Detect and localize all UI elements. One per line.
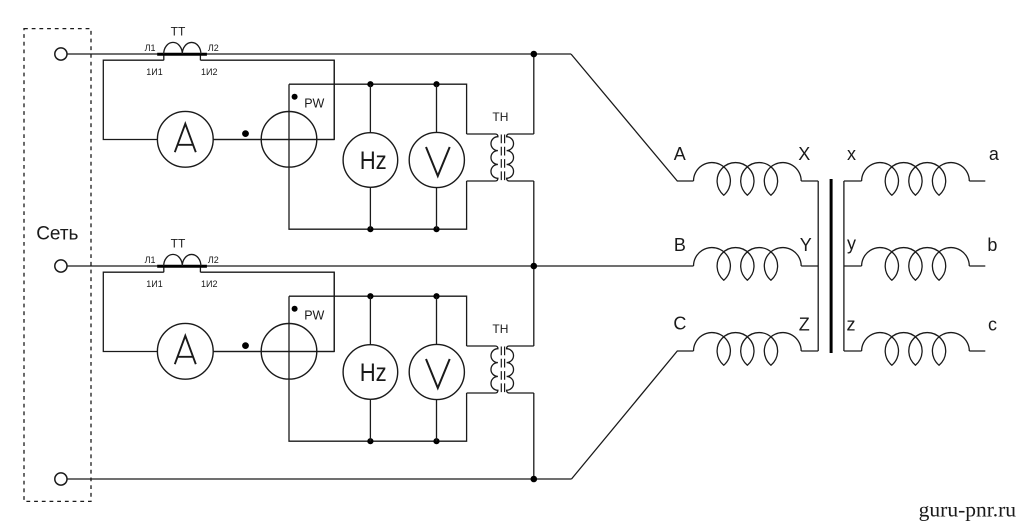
wire CT secondary stubs (top) (164, 56, 201, 61)
svg-text:ТН: ТН (492, 110, 508, 124)
svg-text:Y: Y (800, 235, 812, 255)
junction dot V branch top (top) (433, 81, 439, 87)
junction dot Hz branch bottom (top) (367, 226, 373, 232)
svg-text:y: y (847, 234, 856, 254)
voltmeter PV (bottom) (409, 344, 464, 399)
wire through wattmeter (top) (261, 139, 334, 141)
wire Hz branch (top) (369, 84, 371, 229)
transformer primary winding B-Y (694, 248, 802, 281)
wire V branch (top) (436, 84, 438, 229)
terminal 1 (55, 48, 67, 60)
wattmeter PW circle (top) (261, 112, 317, 168)
voltage transformer TN secondary winding (bottom) (507, 346, 534, 393)
svg-text:Л2: Л2 (208, 43, 219, 53)
wire diagonal A to winding (571, 54, 694, 181)
junction dot V branch bottom (top) (433, 226, 439, 232)
ammeter PA (top) (157, 111, 213, 167)
wire ammeter to wattmeter (top) (213, 139, 261, 141)
measurement box (top) (289, 84, 467, 229)
junction dot phase A / TN (531, 51, 538, 58)
wire secondary bus to winding z (844, 350, 862, 352)
network (Сеть) dashed box (24, 29, 91, 502)
wire secondary terminal c (969, 350, 985, 352)
svg-text:Hz: Hz (360, 147, 387, 175)
transformer primary winding A-X (694, 163, 802, 196)
wire CT secondary loop (bottom) (103, 272, 334, 351)
wire winding Z to star bus (801, 350, 818, 352)
wire secondary bus to winding x (844, 180, 862, 182)
junction dot Hz branch top (top) (367, 81, 373, 87)
current transformer TT (top) primary bar (157, 53, 207, 56)
svg-text:a: a (989, 144, 1000, 164)
wire secondary bus to winding y (844, 265, 862, 267)
junction dot Hz branch bottom (bottom) (367, 438, 373, 444)
wire TN vertical bus segments (533, 54, 535, 479)
svg-text:A: A (674, 144, 686, 164)
wire secondary bus x-y-z (843, 181, 845, 351)
wire wattmeter box right edge (top) (333, 60, 335, 139)
transformer secondary winding z-c (862, 333, 970, 366)
svg-text:c: c (988, 315, 997, 335)
wire secondary terminal a (969, 180, 985, 182)
svg-text:Л1: Л1 (145, 43, 156, 53)
wattmeter voltage polarity dot (top) (292, 94, 298, 100)
wire phase C horizontal (67, 478, 572, 480)
junction dot phase B / TN (531, 263, 538, 270)
wire primary star bus X-Y-Z (817, 181, 819, 351)
wattmeter current polarity dot (bottom) (242, 342, 249, 349)
voltage transformer TN primary winding (top) (467, 134, 498, 181)
voltage transformer TN core (bottom) (501, 347, 504, 393)
wire CT secondary loop (top) (103, 60, 334, 139)
svg-text:z: z (847, 315, 856, 335)
ammeter PA (bottom) (157, 323, 213, 379)
svg-text:x: x (847, 144, 856, 164)
transformer secondary winding x-a (862, 163, 970, 196)
transformer core bar (830, 179, 833, 353)
wire winding X to star bus (801, 180, 818, 182)
frequency meter Hz (top) (343, 133, 398, 188)
wire secondary terminal b (969, 265, 985, 267)
junction dot Hz branch top (bottom) (367, 293, 373, 299)
wire wattmeter box right edge (bottom) (333, 272, 335, 351)
wire CT secondary stubs (bottom) (164, 268, 201, 273)
svg-text:1И1: 1И1 (146, 279, 162, 289)
wattmeter PW circle (bottom) (261, 324, 317, 380)
wire winding Y to star bus (801, 265, 818, 267)
wattmeter voltage polarity dot (bottom) (292, 306, 298, 312)
svg-text:Л1: Л1 (145, 255, 156, 265)
transformer secondary winding y-b (862, 248, 970, 281)
svg-text:PW: PW (304, 97, 324, 111)
svg-text:1И2: 1И2 (201, 67, 217, 77)
frequency meter Hz (bottom) (343, 345, 398, 400)
current transformer TT (bottom) winding arcs (164, 254, 201, 266)
junction dot phase C / TN (531, 476, 538, 483)
wire phase B horizontal (67, 265, 694, 267)
svg-text:PW: PW (304, 309, 324, 323)
terminal 3 (55, 473, 67, 485)
wire phase A horizontal (67, 53, 571, 55)
wire through wattmeter (bottom) (261, 351, 334, 353)
current transformer TT (bottom) primary bar (157, 265, 207, 268)
svg-text:Hz: Hz (360, 359, 387, 387)
wire V branch (bottom) (436, 296, 438, 441)
svg-text:B: B (674, 235, 686, 255)
svg-text:C: C (673, 314, 686, 334)
wire Hz branch (bottom) (369, 296, 371, 441)
svg-text:ТН: ТН (492, 322, 508, 336)
wire ammeter to wattmeter (bottom) (213, 351, 261, 353)
svg-text:ТТ: ТТ (171, 25, 186, 39)
svg-text:1И1: 1И1 (146, 67, 162, 77)
voltage transformer TN secondary winding (top) (507, 134, 534, 181)
terminal 2 (55, 260, 67, 272)
svg-text:X: X (798, 144, 810, 164)
svg-text:guru-pnr.ru: guru-pnr.ru (919, 498, 1017, 522)
svg-text:b: b (987, 235, 997, 255)
svg-text:ТТ: ТТ (171, 237, 186, 251)
measurement box (bottom) (289, 296, 467, 441)
junction dot V branch top (bottom) (433, 293, 439, 299)
svg-text:1И2: 1И2 (201, 279, 217, 289)
svg-text:Л2: Л2 (208, 255, 219, 265)
voltmeter PV (top) (409, 132, 464, 187)
junction dot V branch bottom (bottom) (433, 438, 439, 444)
transformer primary winding C-Z (694, 333, 802, 366)
wattmeter current polarity dot (top) (242, 130, 249, 137)
svg-text:Z: Z (799, 314, 810, 334)
svg-text:Сеть: Сеть (36, 224, 78, 245)
current transformer TT (top) winding arcs (164, 42, 201, 54)
voltage transformer TN primary winding (bottom) (467, 346, 498, 393)
wire diagonal C to winding (572, 351, 694, 479)
voltage transformer TN core (top) (501, 135, 504, 181)
